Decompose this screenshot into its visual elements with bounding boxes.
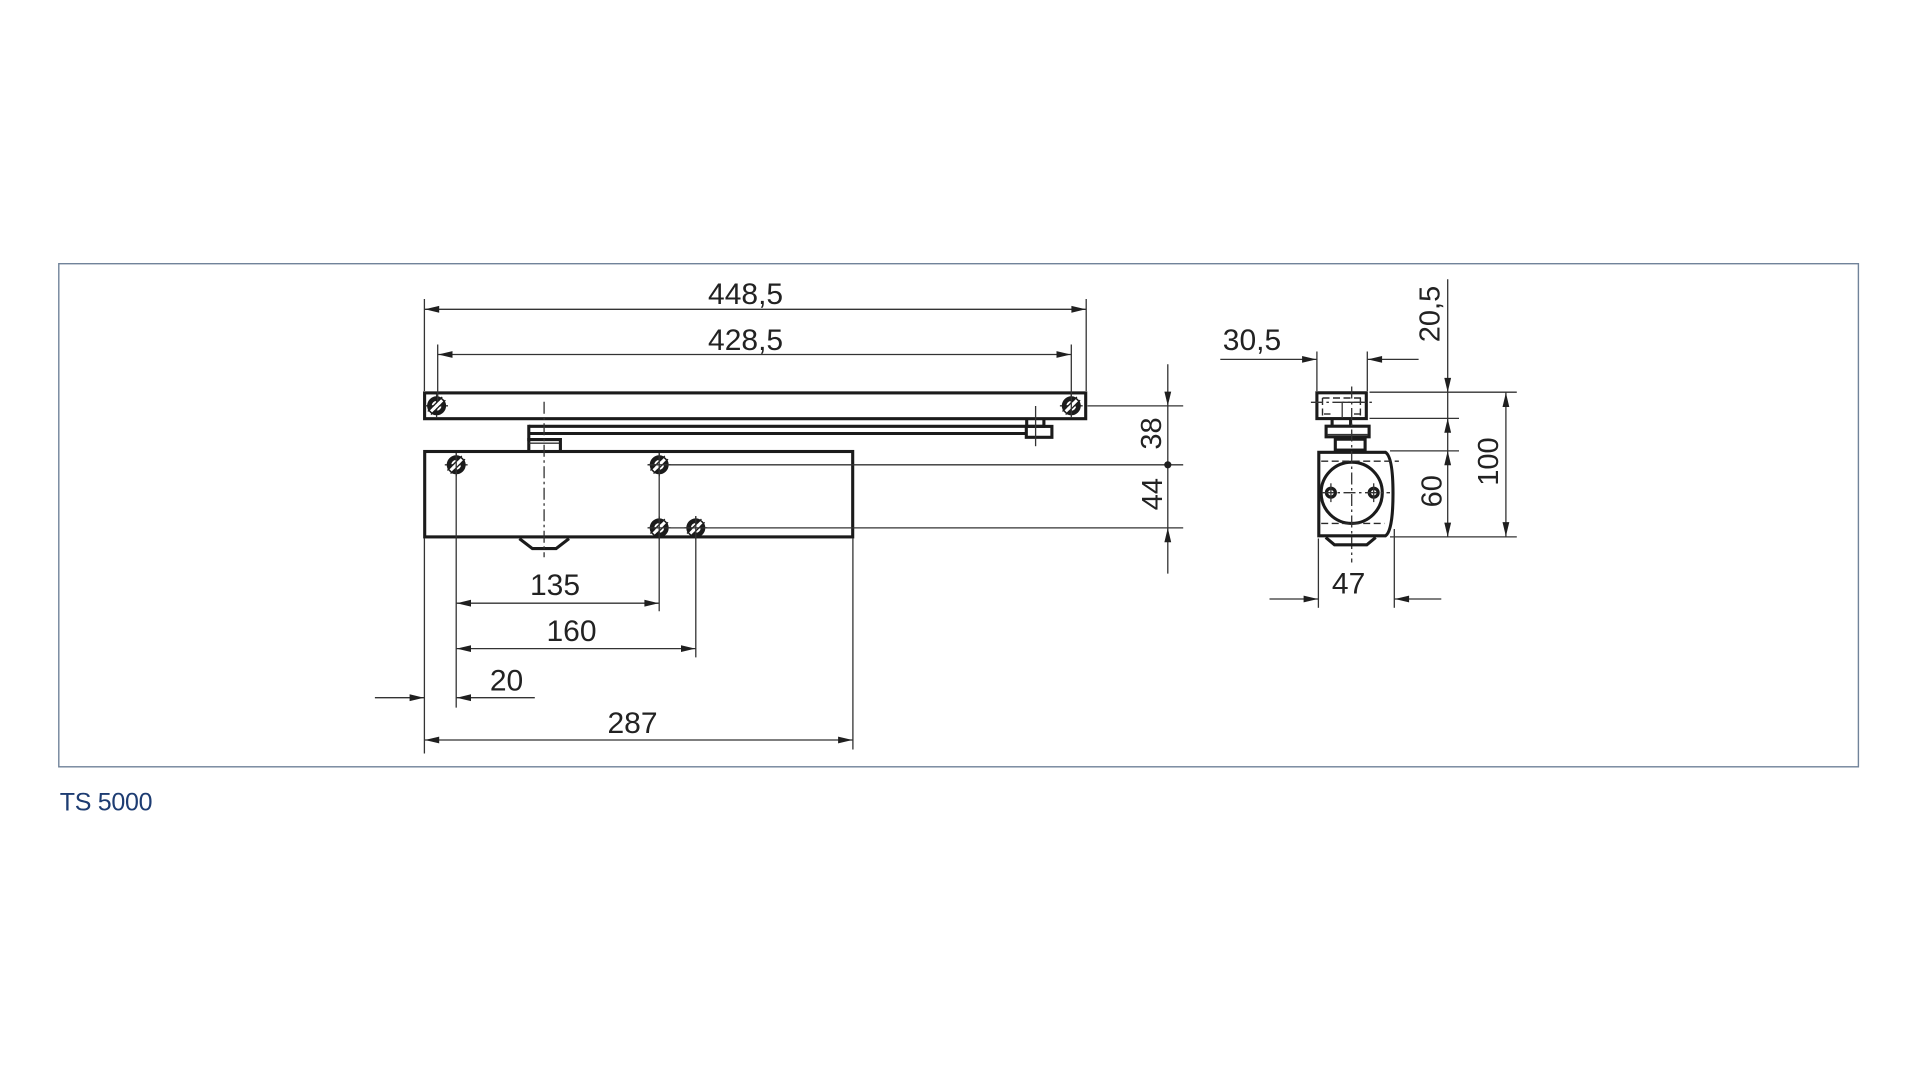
closer arm top edge	[529, 425, 1045, 428]
arm slider block	[1026, 426, 1052, 437]
body hidden line lower	[1321, 522, 1384, 524]
extension line body right vertical	[852, 539, 854, 750]
body cross circle	[1321, 462, 1382, 523]
slider axis line	[1035, 406, 1037, 446]
rail fixing hole right	[1060, 394, 1083, 417]
rail cross slider lines	[1342, 402, 1362, 418]
closer arm left edge	[527, 425, 530, 450]
dim 428,5	[438, 324, 1072, 416]
dim 20	[375, 665, 535, 702]
pinion neck left	[1331, 420, 1334, 426]
slider stub left	[1025, 420, 1028, 427]
pinion flange	[1326, 426, 1369, 437]
extension line hole A vertical	[455, 453, 457, 708]
svg-text:135: 135	[530, 569, 580, 602]
body centerline	[543, 402, 545, 557]
svg-text:448,5: 448,5	[708, 278, 783, 311]
dim 287	[424, 707, 853, 743]
svg-text:60: 60	[1417, 475, 1449, 507]
slide rail	[425, 393, 1086, 419]
dim 44	[1137, 478, 1171, 542]
body hole B (upper right)	[648, 453, 671, 476]
extension line body top right	[1390, 450, 1459, 452]
body hole A (left)	[445, 453, 468, 476]
rail fixing hole left	[425, 394, 448, 417]
extension line hole D vertical	[695, 516, 697, 657]
extension line body bottom right	[1390, 536, 1517, 538]
svg-text:287: 287	[607, 707, 657, 740]
extension line rail bottom right	[1370, 417, 1460, 419]
body horizontal centerline	[1322, 492, 1390, 494]
svg-text:20: 20	[490, 665, 523, 698]
body hole C (lower left)	[648, 517, 671, 540]
dim 47	[1270, 529, 1442, 608]
body cross hole right	[1369, 483, 1378, 502]
drawing frame	[59, 264, 1859, 767]
rail cross-section	[1317, 393, 1366, 419]
svg-text:100: 100	[1473, 437, 1505, 485]
svg-text:47: 47	[1332, 568, 1365, 601]
closer body	[425, 452, 853, 537]
extension line body left vertical	[423, 539, 425, 754]
arm pinion block	[527, 440, 560, 450]
extension line rail top right	[1370, 391, 1517, 393]
dim 448,5	[424, 278, 1086, 391]
svg-text:20,5: 20,5	[1415, 286, 1447, 342]
dim 100	[1473, 392, 1509, 537]
dim 135	[456, 569, 659, 607]
dim 30,5	[1220, 324, 1418, 391]
leader line upper hole row	[648, 464, 1184, 466]
body hidden line upper	[1321, 460, 1399, 462]
vertical centerline right view	[1351, 387, 1353, 563]
extension line hole B vertical	[658, 453, 660, 611]
pinion shaft	[1335, 439, 1365, 450]
slider stub right	[1042, 420, 1045, 427]
leader line lower hole row	[648, 527, 1184, 529]
pinion boss under body	[519, 539, 569, 549]
body hole D (lower right)	[684, 517, 707, 540]
svg-text:44: 44	[1137, 478, 1169, 510]
svg-text:160: 160	[546, 615, 596, 648]
pinion boss cross	[1326, 537, 1376, 544]
body cross hole left	[1327, 483, 1336, 502]
rail cross hidden lines	[1323, 398, 1363, 416]
svg-text:30,5: 30,5	[1223, 324, 1281, 357]
closer arm bottom edge	[529, 432, 1027, 435]
pinion neck right	[1349, 420, 1352, 426]
svg-text:TS 5000: TS 5000	[60, 789, 152, 817]
body cross-section outline	[1319, 452, 1393, 536]
leader line rail hole row	[1088, 405, 1184, 407]
svg-text:428,5: 428,5	[708, 324, 783, 357]
svg-text:38: 38	[1136, 417, 1168, 449]
dim 160	[456, 615, 696, 652]
rail cross horizontal centerline	[1311, 401, 1373, 403]
dim 20,5 chain line	[1415, 279, 1451, 537]
dim 38	[1136, 364, 1172, 573]
